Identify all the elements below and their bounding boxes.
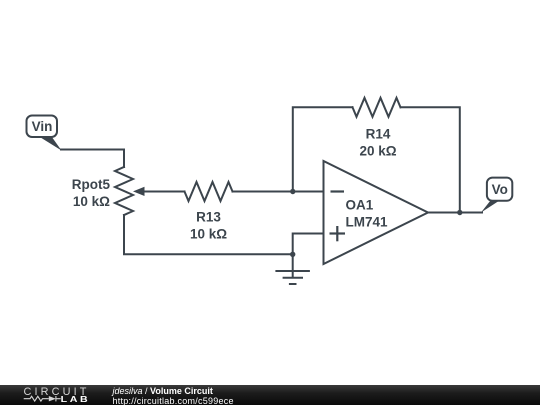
wire R13 to op-amp minus input [233, 191, 324, 193]
junction node ground [290, 252, 295, 257]
node Vin flag [27, 116, 62, 151]
junction node output [457, 210, 462, 215]
wire R14 right to output node [401, 107, 460, 212]
svg-text:LM741: LM741 [346, 215, 389, 230]
resistor R13 zigzag [185, 182, 233, 201]
svg-text:R13: R13 [196, 210, 221, 225]
op-amp plus symbol [330, 226, 346, 241]
node Vo flag [481, 178, 512, 213]
ground [275, 271, 310, 284]
footer bar [0, 385, 540, 405]
svg-text:Vin: Vin [32, 119, 53, 134]
svg-text:10 kΩ: 10 kΩ [73, 194, 110, 209]
wire wiper to R13 [144, 191, 185, 193]
CircuitLab logo [22, 385, 97, 405]
op-amp minus symbol [331, 190, 345, 192]
wire Vin to potentiometer top [61, 150, 124, 168]
svg-text:10 kΩ: 10 kΩ [190, 227, 227, 242]
potentiometer Rpot5 zigzag [115, 167, 133, 215]
svg-text:20 kΩ: 20 kΩ [359, 144, 396, 159]
wire ground stub [292, 254, 294, 277]
wire plus input to ground node [293, 234, 324, 255]
svg-text:R14: R14 [366, 126, 391, 141]
svg-text:LAB: LAB [61, 395, 90, 404]
wire potentiometer bottom to ground node [124, 215, 293, 254]
junction node minus input [290, 189, 295, 194]
svg-text:Vo: Vo [492, 182, 508, 197]
labels [72, 126, 397, 241]
svg-text:OA1: OA1 [346, 198, 374, 213]
wire node A vertical to R14 left [293, 107, 353, 191]
wire op-amp output [428, 212, 482, 214]
resistor R14 zigzag [353, 98, 401, 117]
potentiometer wiper arrow [133, 187, 145, 196]
svg-text:Rpot5: Rpot5 [72, 177, 111, 192]
op-amp U1 triangle [324, 161, 429, 264]
